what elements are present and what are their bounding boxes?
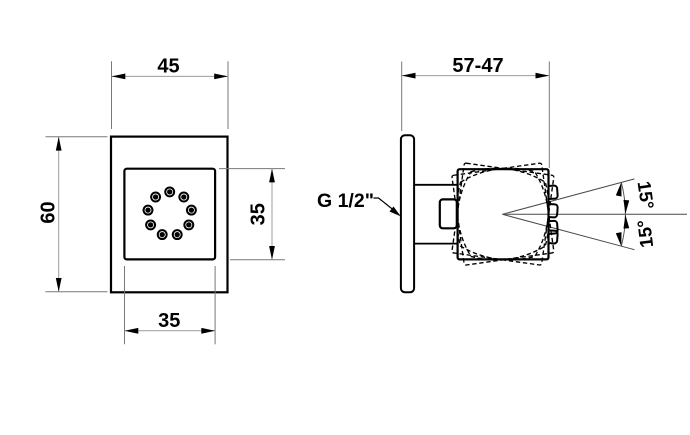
svg-text:35: 35 (248, 203, 270, 225)
svg-text:57-47: 57-47 (452, 55, 503, 77)
svg-text:15°: 15° (634, 180, 659, 211)
svg-text:G 1/2": G 1/2" (317, 190, 374, 212)
svg-text:60: 60 (38, 201, 60, 223)
svg-text:45: 45 (157, 56, 179, 78)
svg-text:15°: 15° (633, 219, 657, 249)
svg-text:35: 35 (158, 310, 180, 332)
